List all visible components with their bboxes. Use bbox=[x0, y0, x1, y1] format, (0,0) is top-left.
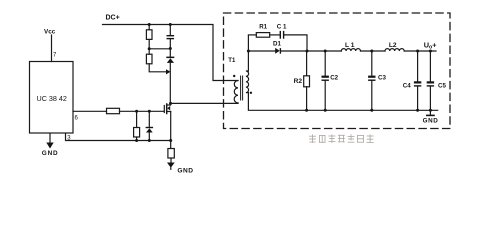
diode D1 bbox=[275, 48, 280, 54]
svg-text:C 1: C 1 bbox=[277, 24, 287, 31]
ground source arrow bbox=[167, 163, 175, 168]
diode clamp cathode bar bbox=[166, 57, 174, 59]
node snubber left junction bbox=[247, 50, 250, 53]
node clamp mid right bbox=[169, 47, 172, 50]
pin 3 label bbox=[67, 135, 71, 141]
svg-text:7: 7 bbox=[53, 52, 57, 58]
capacitor C5 bbox=[429, 51, 431, 81]
node secondary phase dot bbox=[250, 92, 252, 94]
capacitor C4 bbox=[417, 51, 419, 81]
svg-text:D1: D1 bbox=[273, 40, 281, 47]
node C3 top junction bbox=[370, 50, 373, 53]
node DC+ label bbox=[106, 14, 120, 21]
node Vcc label bbox=[44, 28, 56, 35]
svg-text:GND: GND bbox=[42, 150, 59, 157]
resistor current sense bbox=[168, 149, 174, 159]
svg-text:UC 38 42: UC 38 42 bbox=[37, 94, 67, 103]
svg-text:T1: T1 bbox=[228, 58, 236, 64]
wire resistor to gate bbox=[120, 110, 165, 112]
diode gate zener bbox=[148, 111, 150, 127]
wire secondary top to snubber node bbox=[247, 36, 249, 72]
svg-text:L 1: L 1 bbox=[345, 42, 355, 49]
svg-text:Uo+: Uo+ bbox=[424, 41, 437, 51]
svg-text:R1: R1 bbox=[259, 24, 267, 31]
wire clamp cap branch top bbox=[169, 25, 171, 36]
svg-text:GND: GND bbox=[177, 167, 193, 174]
wire between clamp resistors bbox=[148, 39, 150, 54]
transformer T1 primary bbox=[234, 81, 238, 104]
ground IC arrow bbox=[46, 143, 53, 149]
resistor clamp R lower bbox=[146, 54, 152, 64]
wire drain to transformer bbox=[171, 102, 239, 104]
transistor Q1 MOSFET bbox=[164, 103, 170, 113]
wire C1 to corner bbox=[284, 35, 307, 51]
wire clamp cross-connect bbox=[149, 48, 170, 50]
node gate-diode junction bbox=[148, 110, 151, 113]
dashed output-filter box bbox=[224, 13, 451, 129]
ground output stub bbox=[429, 110, 431, 114]
svg-text:GND: GND bbox=[423, 118, 439, 125]
node D1/R2 junction bbox=[306, 50, 309, 53]
wire clamp R bottom to arrow bbox=[149, 64, 166, 72]
svg-text:Vcc: Vcc bbox=[44, 28, 56, 35]
capacitor C2 bbox=[324, 51, 326, 76]
svg-text:6: 6 bbox=[75, 116, 79, 122]
wire Vcc to pin 7 bbox=[51, 35, 53, 62]
node primary phase dot bbox=[233, 75, 235, 77]
arrowhead clamp to drain node bbox=[166, 69, 171, 74]
wire IC ground stub bbox=[49, 133, 51, 142]
capacitor clamp bbox=[167, 35, 175, 36]
transformer T1 label bbox=[228, 58, 236, 64]
D1 label bbox=[273, 40, 281, 47]
wire secondary bottom to output return bbox=[248, 93, 437, 111]
C3 label bbox=[378, 75, 386, 82]
resistor gate series bbox=[107, 108, 120, 113]
wire L2 to output bbox=[404, 50, 436, 52]
L2 label bbox=[389, 42, 397, 49]
watermark 输出滤波电路 bbox=[310, 135, 374, 143]
C1 label bbox=[277, 24, 287, 31]
svg-text:DC+: DC+ bbox=[106, 14, 120, 21]
wire sense R to ground bbox=[170, 158, 172, 163]
wire source down bbox=[170, 112, 172, 149]
node C5 top junction bbox=[429, 50, 432, 53]
C5 label bbox=[438, 83, 446, 90]
resistor R1 bbox=[256, 33, 269, 38]
R1 label bbox=[259, 24, 267, 31]
svg-text:R2: R2 bbox=[294, 78, 303, 85]
wire pin 6 output bbox=[73, 110, 107, 112]
node drain junction bbox=[169, 102, 172, 105]
inductor L1 bbox=[341, 49, 360, 51]
svg-text:C5: C5 bbox=[438, 83, 446, 90]
node gate-zener junction bbox=[135, 110, 138, 113]
svg-text:C2: C2 bbox=[330, 74, 338, 81]
svg-text:L2: L2 bbox=[389, 42, 397, 49]
node C4 top junction bbox=[416, 50, 419, 53]
svg-text:C4: C4 bbox=[403, 83, 411, 90]
node clamp mid left bbox=[148, 47, 151, 50]
capacitor C3 bbox=[371, 51, 373, 76]
inductor L2 bbox=[385, 49, 404, 51]
node Uo+ output label bbox=[424, 41, 437, 51]
ground output label bbox=[423, 118, 439, 125]
C4 label bbox=[403, 83, 411, 90]
wire DC+ rail bbox=[103, 25, 239, 81]
diode clamp bbox=[167, 58, 174, 63]
wire D1 cathode to rail bbox=[281, 50, 341, 52]
pin 6 label bbox=[75, 116, 79, 122]
wire snubber top branch bbox=[248, 34, 256, 36]
C2 label bbox=[330, 74, 338, 81]
wire L1 to L2 bbox=[361, 50, 386, 52]
svg-text:C3: C3 bbox=[378, 75, 386, 82]
ground IC label bbox=[42, 150, 59, 157]
wire R1 to C1 bbox=[270, 34, 280, 36]
wire D1 anode bbox=[248, 50, 275, 52]
pin 7 label bbox=[53, 52, 57, 58]
transformer T1 secondary bbox=[246, 71, 249, 93]
resistor R2 bbox=[306, 51, 308, 76]
node clamp cap top bbox=[169, 23, 172, 26]
wire diode to drain node bbox=[169, 63, 171, 104]
ground source label bbox=[177, 167, 193, 174]
transformer core bbox=[240, 76, 242, 100]
op-amp U1 UC3842 box bbox=[30, 62, 74, 134]
wire cap to diode bbox=[169, 39, 171, 56]
R2 label bbox=[294, 78, 303, 85]
resistor clamp R upper bbox=[148, 25, 150, 30]
wire pin 3 stub bbox=[66, 133, 171, 140]
resistor gate pulldown bbox=[136, 111, 138, 127]
node clamp R top bbox=[148, 23, 151, 26]
capacitor C1 bbox=[280, 31, 281, 39]
L1 label bbox=[345, 42, 355, 49]
node source/pin3 junction bbox=[169, 139, 172, 142]
U1 value label UC3842 bbox=[37, 94, 67, 103]
